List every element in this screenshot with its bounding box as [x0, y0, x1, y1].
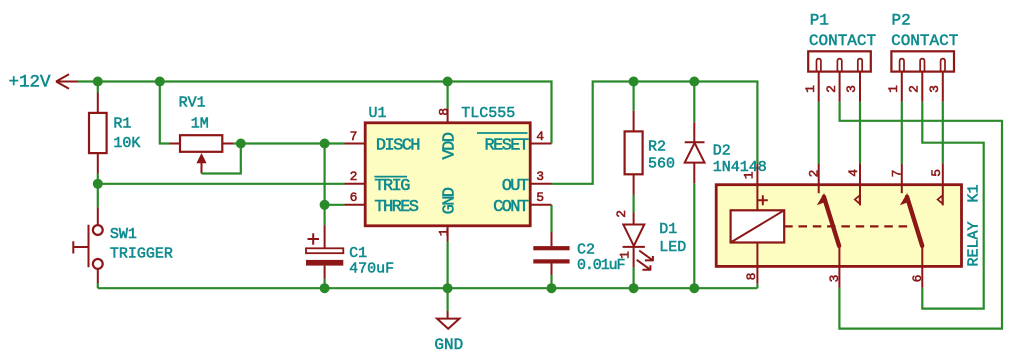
U1 pin 4 RESET — [477, 129, 552, 156]
svg-text:6: 6 — [910, 275, 925, 283]
switch SW1 — [73, 207, 173, 283]
junction RV1 wiper — [236, 139, 246, 149]
svg-text:THRES: THRES — [374, 198, 418, 217]
wire C1 top — [324, 205, 326, 226]
connector P1 body — [808, 12, 876, 72]
ground symbol — [434, 311, 463, 354]
wire RV1 branch — [160, 82, 170, 144]
svg-text:SW1: SW1 — [110, 226, 137, 243]
connector P2 pin 2 — [907, 59, 925, 102]
wire VDD drop — [447, 82, 449, 109]
wire R2 to D1 — [632, 195, 634, 212]
diode D2 — [685, 122, 767, 183]
op IC U1 TLC555 body — [365, 105, 530, 226]
junction rail D1 — [629, 283, 639, 293]
capacitor C2 — [533, 232, 624, 275]
junction DISCH — [320, 139, 330, 149]
relay K1 body — [716, 184, 982, 266]
junction VDD — [443, 77, 453, 87]
wire P1 pin1 to relay pin2 — [818, 102, 820, 164]
svg-text:1: 1 — [436, 228, 451, 236]
connector P1 pin 1 — [803, 59, 821, 102]
wire P2 pin1 to relay pin7 — [901, 102, 903, 164]
svg-text:CONTACT: CONTACT — [809, 32, 876, 50]
U1 pin 7 DISCH — [345, 129, 420, 156]
wire RV1 to DISCH — [233, 142, 345, 144]
svg-text:3: 3 — [827, 275, 842, 283]
junction THRES — [320, 200, 330, 210]
svg-text:K1: K1 — [966, 184, 983, 202]
junction +12V R1 — [93, 77, 103, 87]
wire CONT to C2 — [550, 205, 552, 232]
wire THRES stub — [325, 204, 345, 206]
wire D2 bottom — [693, 183, 695, 288]
U1 pin 8 VDD — [436, 108, 459, 160]
svg-text:1: 1 — [741, 171, 756, 179]
wire D1 bottom — [632, 267, 634, 288]
wire C2 bottom — [550, 275, 552, 288]
relay coil — [731, 195, 785, 242]
svg-text:1M: 1M — [191, 116, 209, 133]
relay pin 3 — [827, 246, 842, 288]
svg-text:2: 2 — [824, 85, 839, 93]
U1 pin 1 GND — [436, 187, 459, 241]
svg-text:TRIG: TRIG — [374, 177, 410, 196]
relay pin 7 — [890, 164, 905, 193]
svg-text:5: 5 — [929, 169, 944, 177]
wire R1 top drop — [97, 82, 99, 93]
svg-text:+12V: +12V — [8, 73, 51, 93]
svg-text:3: 3 — [844, 85, 859, 93]
svg-text:4: 4 — [536, 129, 544, 144]
potentiometer RV1 — [170, 95, 241, 174]
resistor R1 — [89, 93, 140, 174]
svg-text:DISCH: DISCH — [376, 137, 419, 156]
wire relay pin3 to P1 pin2 loop — [839, 102, 1002, 329]
relay pin 8 — [744, 243, 759, 284]
svg-text:GND: GND — [434, 336, 463, 354]
wire DISCH-THRES vertical — [324, 144, 326, 205]
relay dashed link — [784, 225, 908, 227]
relay switch arm 2 — [900, 193, 922, 246]
relay pin 6 — [910, 246, 925, 288]
svg-text:VDD: VDD — [441, 132, 460, 159]
svg-text:CONT: CONT — [493, 198, 529, 217]
svg-text:TRIGGER: TRIGGER — [110, 246, 173, 263]
svg-text:D1: D1 — [659, 221, 677, 238]
junction rail GND — [443, 283, 453, 293]
connector P1 pin 3 — [844, 59, 862, 102]
svg-text:1: 1 — [886, 85, 901, 93]
svg-text:RV1: RV1 — [179, 95, 206, 112]
U1 pin 6 THRES — [345, 190, 419, 217]
U1 pin 2 TRIG — [345, 169, 411, 196]
wire OUT net — [552, 82, 758, 184]
wire TRIG — [98, 183, 345, 185]
svg-text:560: 560 — [648, 155, 675, 172]
svg-text:1: 1 — [618, 251, 633, 259]
svg-text:RESET: RESET — [484, 137, 528, 156]
svg-text:P2: P2 — [892, 12, 911, 30]
connector P2 pin 1 — [886, 59, 904, 102]
svg-text:D2: D2 — [713, 143, 731, 160]
capacitor C1 — [306, 225, 394, 278]
svg-text:3: 3 — [927, 85, 942, 93]
wire P2 pin3 to relay pin5 — [942, 102, 944, 164]
power label +12V — [8, 73, 78, 93]
svg-text:4: 4 — [846, 169, 861, 177]
svg-text:5: 5 — [536, 190, 544, 205]
svg-text:TLC555: TLC555 — [461, 105, 515, 122]
wire relay pin8 — [756, 284, 758, 289]
connector P2 body — [891, 12, 958, 72]
svg-text:7: 7 — [890, 170, 905, 178]
svg-text:8: 8 — [436, 108, 451, 116]
svg-text:2: 2 — [350, 169, 358, 184]
relay pin 5 — [929, 163, 944, 205]
resistor R2 — [625, 111, 675, 195]
LED D1 — [614, 210, 686, 271]
relay pin 1 — [741, 164, 757, 210]
svg-text:1N4148: 1N4148 — [713, 159, 767, 176]
svg-text:1: 1 — [803, 85, 818, 93]
junction rail C2 — [547, 283, 557, 293]
svg-text:6: 6 — [350, 190, 358, 205]
svg-text:RELAY: RELAY — [966, 221, 983, 266]
svg-text:CONTACT: CONTACT — [891, 32, 958, 50]
wire GND stub — [447, 288, 449, 311]
svg-text:C1: C1 — [349, 245, 367, 262]
wire SW1 top — [97, 184, 99, 208]
wire ground rail — [98, 287, 758, 289]
junction rail C1 — [320, 283, 330, 293]
svg-text:LED: LED — [659, 239, 686, 256]
svg-text:R1: R1 — [113, 116, 131, 133]
svg-text:470uF: 470uF — [349, 261, 394, 278]
wire SW1 bottom — [97, 283, 99, 288]
wire +12V rail — [78, 82, 552, 144]
svg-text:2: 2 — [807, 170, 822, 178]
wire R1 bottom — [97, 174, 99, 184]
relay switch arm 1 — [817, 193, 839, 246]
svg-text:10K: 10K — [113, 135, 140, 152]
connector P2 pin 3 — [927, 59, 945, 102]
wire U1 pin1 to rail — [447, 242, 449, 289]
svg-text:P1: P1 — [810, 12, 829, 30]
wire P1 pin3 to relay pin4 — [859, 102, 861, 164]
svg-text:3: 3 — [536, 169, 544, 184]
wire relay pin6 to P2 pin2 loop — [922, 102, 983, 309]
wire C1 bottom — [324, 279, 326, 289]
wire D2 top — [693, 82, 695, 123]
junction OUT D2 — [689, 77, 699, 87]
relay pin 2 — [807, 164, 822, 193]
junction rail D2 — [689, 283, 699, 293]
svg-text:R2: R2 — [648, 138, 666, 155]
svg-text:7: 7 — [350, 129, 358, 144]
svg-text:2: 2 — [614, 210, 629, 218]
svg-text:8: 8 — [744, 273, 759, 281]
junction OUT R2 — [629, 77, 639, 87]
svg-text:OUT: OUT — [502, 177, 529, 196]
U1 pin 3 OUT — [502, 169, 552, 196]
connector P1 pin 2 — [824, 59, 842, 102]
U1 pin 5 CONT — [493, 190, 551, 217]
relay pin 4 — [846, 163, 861, 205]
junction TRIG SW1 — [93, 179, 103, 189]
junction +12V RV1 — [155, 77, 165, 87]
wire R2 top — [632, 82, 634, 111]
svg-text:2: 2 — [907, 85, 922, 93]
svg-text:GND: GND — [441, 187, 460, 214]
svg-text:U1: U1 — [369, 105, 387, 122]
